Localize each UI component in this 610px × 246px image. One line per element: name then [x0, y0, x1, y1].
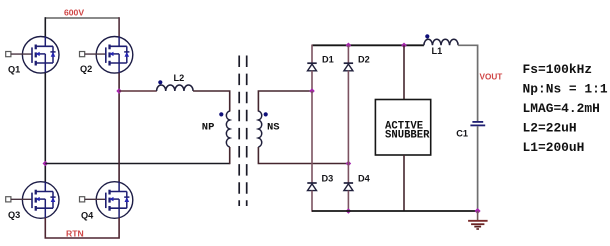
svg-text:D2: D2: [358, 55, 370, 65]
transformer NS winding: [258, 111, 261, 147]
svg-text:LMAG=4.2mH: LMAG=4.2mH: [523, 101, 600, 116]
wire bridge left leg to NP bottom: [45, 163, 229, 165]
wire D2 cathode stub: [347, 45, 349, 63]
transformer NS polarity dot: [264, 112, 268, 116]
wire D4 anode to bottom rail: [347, 191, 349, 212]
svg-text:Fs=100kHz: Fs=100kHz: [523, 62, 593, 77]
svg-text:L1: L1: [432, 46, 443, 56]
transistor Q3: [6, 182, 59, 219]
transformer NP polarity dot: [219, 112, 223, 116]
node junction dot bottom rail D4: [346, 208, 352, 214]
node junction dot ground: [475, 208, 481, 214]
node junction dot A: [43, 161, 49, 167]
diode D3: [307, 183, 316, 191]
svg-text:Np:Ns = 1:1: Np:Ns = 1:1: [523, 82, 608, 97]
svg-text:L2: L2: [174, 73, 185, 83]
node junction dot B: [116, 88, 122, 94]
wire NS bottom stub to D4 column: [258, 147, 348, 164]
wire D1 anode to NS top junction: [311, 71, 313, 91]
wire Q2 source to Q4 drain: [118, 73, 120, 183]
wire D1 anode column down to D3: [311, 91, 313, 183]
inductor L1: [424, 39, 458, 45]
transistor Q1: [6, 37, 59, 74]
svg-text:D4: D4: [358, 174, 371, 184]
capacitor C1: [470, 122, 485, 126]
wire rectifier top rail: [312, 44, 424, 46]
svg-text:Q3: Q3: [8, 210, 20, 220]
diode D2: [344, 63, 353, 71]
transformer NP winding: [226, 111, 229, 147]
wire Q2 drain to 600V rail: [118, 17, 120, 37]
svg-text:Q4: Q4: [81, 210, 94, 220]
svg-text:Q2: Q2: [80, 64, 92, 74]
svg-text:L2=22uH: L2=22uH: [523, 121, 577, 136]
inductor L1 polarity dot: [425, 34, 429, 38]
inductor L2: [157, 85, 193, 91]
node junction dot NS bottom: [346, 161, 352, 167]
wire L1 to VOUT column: [458, 45, 478, 121]
wire snubber top lead: [403, 45, 405, 99]
transistor Q4: [80, 182, 133, 219]
svg-text:VOUT: VOUT: [480, 72, 503, 81]
transformer isolation dashed line 2: [246, 56, 248, 207]
wire Q1 drain to 600V rail: [44, 17, 46, 37]
svg-text:Q1: Q1: [8, 64, 20, 74]
wire L2 to NP top: [193, 91, 230, 112]
inductor L2 polarity dot: [158, 80, 162, 84]
wire D2 anode column to D4: [347, 71, 349, 183]
wire phase node to L2: [119, 90, 157, 92]
diode D1: [307, 63, 316, 71]
active snubber box U1: [375, 100, 430, 156]
wire NS top stub to rectifier: [258, 91, 312, 112]
transformer isolation dashed line 1: [238, 56, 240, 207]
node junction dot NS top: [309, 88, 315, 94]
wire D3 anode to bottom rail: [311, 191, 313, 212]
node junction dot snubber top: [401, 43, 407, 49]
wire D1 cathode stub: [311, 45, 313, 64]
wire RTN bottom rail: [45, 218, 119, 238]
svg-text:L1=200uH: L1=200uH: [523, 140, 585, 155]
svg-text:SNUBBER: SNUBBER: [385, 130, 430, 142]
diode D4: [344, 183, 353, 191]
svg-text:C1: C1: [456, 129, 468, 139]
transistor Q2: [80, 37, 133, 74]
node junction dot D2 cathode: [346, 43, 352, 49]
wire rectifier bottom rail: [312, 210, 478, 212]
svg-text:600V: 600V: [64, 7, 84, 17]
wire C1 bottom to ground rail: [477, 126, 479, 211]
wire 600V top rail: [45, 17, 119, 19]
svg-text:D1: D1: [322, 55, 334, 65]
svg-text:D3: D3: [322, 174, 334, 184]
ground symbol: [468, 211, 488, 229]
svg-text:RTN: RTN: [66, 228, 84, 238]
wire NP bottom stub: [229, 147, 231, 164]
wire Q1 source to Q3 drain: [44, 73, 46, 183]
wire snubber bottom lead: [403, 155, 405, 211]
svg-text:NS: NS: [267, 121, 280, 133]
svg-text:NP: NP: [202, 121, 215, 133]
